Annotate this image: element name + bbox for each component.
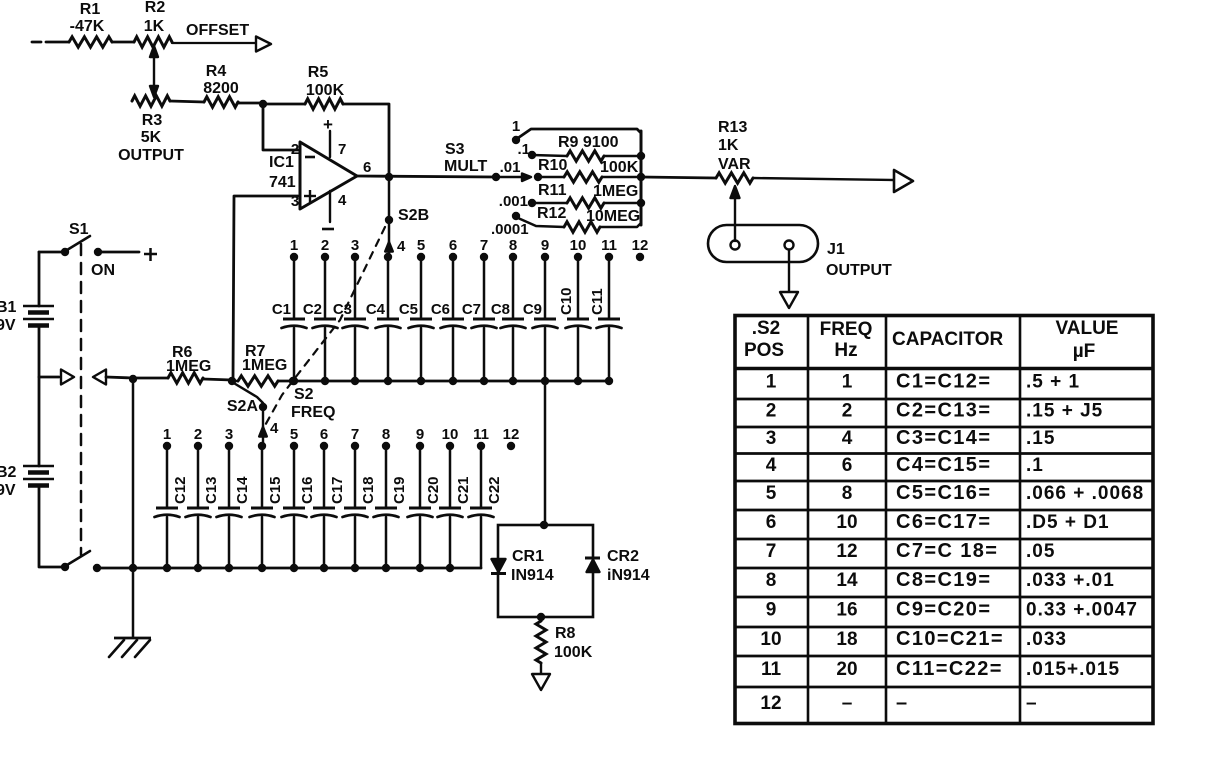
svg-text:.S2: .S2 [752, 318, 781, 339]
bottom bus junction dot 3 [225, 564, 233, 572]
minus sign (inverting input) [305, 156, 315, 159]
svg-text:R8: R8 [555, 625, 576, 642]
svg-text:.0001: .0001 [491, 221, 529, 238]
svg-text:C20: C20 [425, 476, 442, 504]
svg-text:C12: C12 [172, 476, 189, 504]
svg-text:.D5 + D1: .D5 + D1 [1026, 512, 1110, 533]
top bus junction dot 3 [351, 377, 359, 385]
svg-text:4: 4 [338, 192, 347, 209]
svg-text:6: 6 [766, 512, 777, 533]
S2 ganged switch dashed link line [263, 227, 385, 429]
S3 position .01 contact dot [534, 173, 542, 181]
bottom bus junction dot [129, 564, 137, 572]
capacitor C21 [438, 446, 473, 568]
wire top bus to diode clipper [544, 381, 547, 524]
svg-text:IN914: IN914 [511, 567, 554, 584]
svg-text:R9 9100: R9 9100 [558, 134, 619, 151]
svg-text:iN914: iN914 [607, 567, 650, 584]
wire R2 to OFFSET arrow [172, 42, 256, 44]
output node junction dot [385, 173, 393, 181]
svg-text:C17: C17 [329, 476, 346, 504]
S2 FREQ label [291, 386, 335, 421]
resistor R3 5K OUTPUT (pot) [118, 96, 184, 164]
clipper top junction dot [540, 521, 548, 529]
svg-text:741: 741 [269, 174, 296, 191]
wire R6 to node B [203, 379, 232, 380]
svg-text:C18: C18 [360, 476, 377, 504]
svg-text:C4=C15=: C4=C15= [896, 454, 991, 476]
svg-text:C14: C14 [234, 476, 251, 504]
wire R7 to cap bus [278, 380, 293, 383]
top bus junction dot 1 [290, 377, 298, 385]
svg-text:2: 2 [766, 401, 777, 422]
svg-text:OUTPUT: OUTPUT [118, 147, 184, 164]
R13 wiper arrow from J1 [731, 186, 740, 241]
top bus junction dot 11 [605, 377, 613, 385]
svg-text:5: 5 [290, 426, 298, 443]
svg-text:CR1: CR1 [512, 548, 544, 565]
capacitor C3 [333, 257, 368, 381]
svg-text:.15: .15 [1026, 428, 1055, 449]
wire to R1 [46, 41, 69, 44]
capacitor C11 [589, 257, 622, 381]
svg-text:1K: 1K [718, 137, 739, 154]
S3 position .1 contact dot [528, 151, 536, 159]
svg-text:R1: R1 [80, 1, 101, 18]
svg-text:FREQ: FREQ [820, 319, 873, 340]
svg-text:2: 2 [291, 141, 299, 158]
svg-text:2: 2 [842, 401, 853, 422]
S3 right bus wire [640, 131, 643, 225]
svg-text:C1=C12=: C1=C12= [896, 371, 991, 393]
J1 OUTPUT label [826, 241, 892, 279]
svg-text:3: 3 [225, 426, 233, 443]
svg-text:8: 8 [382, 426, 390, 443]
svg-text:11: 11 [601, 237, 617, 254]
capacitor C9 [523, 257, 558, 381]
R8 ground lead [540, 663, 542, 674]
svg-text:C9=C20=: C9=C20= [896, 599, 991, 621]
svg-text:10: 10 [760, 629, 781, 650]
svg-text:C6=C17=: C6=C17= [896, 511, 991, 533]
svg-text:CAPACITOR: CAPACITOR [892, 329, 1003, 350]
top bus junction dot 2 [321, 377, 329, 385]
svg-text:C7: C7 [462, 301, 481, 318]
resistor R1 -47K [69, 1, 112, 47]
svg-text:10: 10 [570, 237, 587, 254]
S2A wiper dot [259, 403, 267, 411]
node A junction (R4/R5/pin2) [259, 100, 267, 108]
svg-text:.15 + J5: .15 + J5 [1026, 401, 1103, 422]
svg-text:.015+.015: .015+.015 [1026, 659, 1120, 680]
wire R5 to output node [343, 104, 389, 174]
main output arrow [894, 170, 913, 192]
resistor R10 100K [538, 157, 641, 182]
svg-text:2: 2 [321, 237, 329, 254]
capacitor C5 [399, 257, 434, 381]
svg-text:1MEG: 1MEG [593, 183, 638, 200]
wire pin 6 to S3 common [357, 176, 496, 177]
S3 position 1 contact dot [512, 136, 520, 144]
svg-text:MULT: MULT [444, 158, 487, 175]
svg-text:B2: B2 [0, 464, 17, 481]
svg-text:12: 12 [760, 693, 781, 714]
resistor R13 1K VAR [716, 119, 753, 183]
svg-text:6: 6 [842, 455, 853, 476]
S3 MULT label [444, 141, 487, 175]
wire position 1 over to bus (direct) [518, 129, 641, 138]
svg-text:1MEG: 1MEG [242, 357, 287, 374]
svg-text:C7=C 18=: C7=C 18= [896, 540, 998, 562]
svg-text:20: 20 [836, 659, 857, 680]
svg-text:7: 7 [766, 541, 777, 562]
capacitor C2 [303, 257, 338, 381]
wire connector to ground node [106, 377, 133, 378]
svg-text:1: 1 [290, 237, 298, 254]
bottom bus junction dot 1 [163, 564, 171, 572]
svg-text:C13: C13 [203, 476, 220, 504]
top bus junction dot 10 [574, 377, 582, 385]
resistor R2 1K (pot) [134, 0, 172, 47]
top bus junction dot 8 [509, 377, 517, 385]
svg-text:.5 + 1: .5 + 1 [1026, 372, 1080, 393]
svg-text:POS: POS [744, 340, 784, 361]
svg-text:7: 7 [351, 426, 359, 443]
svg-text:C10=C21=: C10=C21= [896, 628, 1004, 650]
svg-text:100K: 100K [554, 644, 593, 661]
svg-text:Hz: Hz [834, 340, 857, 361]
svg-text:C3: C3 [333, 301, 352, 318]
svg-text:C10: C10 [558, 287, 575, 315]
svg-text:S3: S3 [445, 141, 465, 158]
S2A wiper wire from node B [232, 382, 263, 403]
svg-text:+: + [323, 115, 333, 134]
J1 ground arrow (open) [780, 292, 798, 308]
switch S1 (top pole) [39, 236, 139, 256]
svg-text:8: 8 [509, 237, 517, 254]
J1 left pin [731, 241, 740, 250]
battery tap stub to connector arrow [39, 376, 59, 379]
bottom bus junction dot 6 [320, 564, 328, 572]
top capacitor bus wire [293, 380, 609, 383]
svg-text:C8: C8 [491, 301, 510, 318]
diode CR1 IN914 [491, 548, 554, 584]
capacitor C18 [343, 446, 378, 568]
svg-text:6: 6 [320, 426, 328, 443]
svg-text:.033: .033 [1026, 629, 1067, 650]
svg-text:9V: 9V [0, 482, 16, 499]
capacitor C17 [312, 446, 347, 568]
diode CR2 iN914 [585, 548, 650, 584]
svg-text:C21: C21 [455, 476, 472, 504]
bus dot R10 row / output node [637, 173, 645, 181]
svg-text:C9: C9 [523, 301, 542, 318]
svg-text:VALUE: VALUE [1056, 318, 1119, 339]
svg-text:16: 16 [836, 600, 857, 621]
svg-text:CR2: CR2 [607, 548, 639, 565]
svg-text:C2=C13=: C2=C13= [896, 400, 991, 422]
svg-text:R5: R5 [308, 64, 329, 81]
capacitor C6 [431, 257, 466, 381]
svg-text:R2: R2 [145, 0, 166, 16]
svg-text:R10: R10 [538, 157, 567, 174]
svg-text:4: 4 [766, 455, 777, 476]
svg-text:R11: R11 [538, 182, 567, 199]
S3 common junction dot [492, 173, 500, 181]
svg-text:0.33 +.0047: 0.33 +.0047 [1026, 600, 1138, 621]
svg-text:R3: R3 [142, 112, 163, 129]
cap bus left junction dot [289, 377, 297, 385]
svg-text:1: 1 [842, 372, 853, 393]
svg-text:5: 5 [766, 483, 777, 504]
svg-text:4: 4 [842, 428, 853, 449]
pin 4 supply lead [322, 191, 347, 229]
svg-text:9: 9 [541, 237, 549, 254]
svg-text:C6: C6 [431, 301, 450, 318]
svg-text:C3=C14=: C3=C14= [896, 427, 991, 449]
ground symbol [109, 638, 151, 657]
svg-text:5K: 5K [141, 129, 162, 146]
S2A wiper arrow to position 4 [259, 407, 267, 444]
svg-text:7: 7 [480, 237, 488, 254]
capacitor C22 [469, 446, 504, 568]
vertical ground wire [132, 379, 135, 637]
svg-text:5: 5 [417, 237, 425, 254]
wire node A to R5 [263, 103, 305, 106]
svg-text:–: – [896, 692, 909, 714]
top bus junction dot 4 [384, 377, 392, 385]
bottom bus junction dot 7 [351, 564, 359, 572]
S3 position .0001 contact dot [512, 212, 520, 220]
svg-text:µF: µF [1073, 341, 1096, 362]
wire R4 to node A [238, 102, 263, 105]
ground bus node dot [129, 375, 137, 383]
wire R3-R4 [170, 101, 204, 102]
svg-text:.001: .001 [499, 193, 528, 210]
capacitor C12 [155, 446, 190, 568]
svg-text:S2: S2 [294, 386, 314, 403]
svg-text:C4: C4 [366, 301, 386, 318]
svg-text:9: 9 [416, 426, 424, 443]
capacitor C8 [491, 257, 526, 381]
svg-text:.01: .01 [500, 159, 521, 176]
plus sign (non-inverting input) [304, 190, 316, 202]
svg-text:10: 10 [442, 426, 459, 443]
resistor R7 1MEG [232, 343, 287, 386]
bottom capacitor bus wire [133, 567, 481, 570]
R2 wiper arrow down to R3 [150, 46, 158, 97]
svg-text:C15: C15 [267, 476, 284, 504]
bottom bus junction dot 9 [416, 564, 424, 572]
top bus junction dot 7 [480, 377, 488, 385]
svg-text:R12: R12 [537, 205, 566, 222]
battery B2 9V [0, 464, 54, 499]
svg-text:C11: C11 [589, 288, 606, 315]
wire S1 to B1 [38, 252, 41, 306]
resistor R11 1MEG [532, 182, 641, 208]
S2B wiper wire down to position 4 [385, 177, 393, 255]
J1 right pin [785, 241, 794, 250]
svg-text:.05: .05 [1026, 541, 1055, 562]
wire pin 3 to R6/R7 node [233, 196, 298, 380]
top bus junction dot 5 [417, 377, 425, 385]
svg-text:11: 11 [473, 426, 489, 443]
svg-text:VAR: VAR [718, 156, 751, 173]
left-pointing connector arrow (circuit side) [93, 370, 106, 385]
svg-text:OUTPUT: OUTPUT [826, 262, 892, 279]
svg-text:.033 +.01: .033 +.01 [1026, 570, 1115, 591]
capacitor C7 [462, 257, 497, 381]
wire R1-R2 [112, 41, 134, 44]
svg-text:6: 6 [363, 159, 371, 176]
svg-text:B1: B1 [0, 299, 17, 316]
capacitor C19 [374, 446, 409, 568]
wire node A down to pin 2 [263, 104, 298, 150]
svg-text:C11=C22=: C11=C22= [896, 658, 1003, 680]
wire B2 to bottom switch [39, 486, 61, 567]
plus sign at S1 [144, 248, 157, 261]
bottom bus junction dot 5 [290, 564, 298, 572]
S3 wiper arrow [496, 174, 531, 182]
op-amp U1 IC1 741 triangle [269, 142, 357, 209]
svg-text:12: 12 [503, 426, 520, 443]
capacitor C10 [558, 257, 591, 381]
svg-text:10: 10 [836, 512, 857, 533]
wire B1 to B2 [38, 326, 41, 466]
svg-text:14: 14 [836, 570, 858, 591]
svg-text:3: 3 [766, 428, 777, 449]
bus dot R9 row [637, 152, 645, 160]
svg-text:8200: 8200 [203, 80, 239, 97]
battery B1 9V [0, 299, 54, 334]
capacitor C4 [366, 257, 401, 381]
svg-text:C8=C19=: C8=C19= [896, 569, 991, 591]
wire bus to R13 [641, 177, 716, 178]
svg-text:10MEG: 10MEG [586, 208, 640, 225]
svg-text:9V: 9V [0, 317, 16, 334]
svg-text:C16: C16 [299, 476, 316, 504]
svg-text:C5: C5 [399, 301, 418, 318]
capacitor C1 [272, 257, 307, 381]
bus dot R11 row [637, 199, 645, 207]
svg-text:J1: J1 [827, 241, 845, 258]
offset output arrow [256, 37, 271, 52]
capacitor C15 [250, 446, 285, 568]
bottom bus junction dot 8 [382, 564, 390, 572]
table: S2 POS / FREQ / CAPACITOR / VALUE [735, 316, 1153, 724]
pin 7 supply lead [323, 115, 346, 158]
svg-text:–: – [842, 693, 853, 714]
resistor R9 9100 [532, 134, 641, 161]
S2B wiper dot [385, 216, 393, 224]
svg-text:8: 8 [766, 570, 777, 591]
svg-text:ON: ON [91, 262, 115, 279]
svg-text:1: 1 [163, 426, 171, 443]
svg-text:R13: R13 [718, 119, 747, 136]
svg-text:C22: C22 [486, 476, 503, 504]
right-pointing connector arrow (battery tap) [61, 370, 74, 385]
svg-text:S2A: S2A [227, 398, 259, 415]
svg-text:2: 2 [194, 426, 202, 443]
wire node to R6 [133, 377, 168, 380]
svg-text:6: 6 [449, 237, 457, 254]
resistor R6 1MEG [166, 344, 211, 383]
S1 second pole dashed gang line [80, 244, 83, 555]
svg-text:.066 + .0068: .066 + .0068 [1026, 483, 1144, 504]
bottom bus junction dot 4 [258, 564, 266, 572]
wire stub (off-page dash, top-left) [32, 41, 41, 44]
wire R13 to output arrow [753, 178, 894, 180]
capacitor C16 [282, 446, 317, 568]
switch S1 (bottom pole) [61, 551, 130, 572]
bottom bus junction dot 10 [446, 564, 454, 572]
R8 ground arrow (open) [532, 674, 550, 690]
connector J1 body (stadium outline) [708, 225, 818, 262]
svg-text:R4: R4 [206, 63, 227, 80]
svg-text:9: 9 [766, 600, 777, 621]
svg-text:8: 8 [842, 483, 853, 504]
capacitor C20 [408, 446, 443, 568]
bottom bus junction dot 2 [194, 564, 202, 572]
svg-text:4: 4 [397, 238, 406, 255]
svg-text:18: 18 [836, 629, 857, 650]
svg-text:C19: C19 [391, 476, 408, 504]
resistor R4 8200 [203, 63, 239, 107]
capacitor C13 [186, 446, 221, 568]
S3 position .001 contact dot [528, 199, 536, 207]
svg-text:12: 12 [836, 541, 857, 562]
svg-text:4: 4 [270, 420, 279, 437]
svg-text:100K: 100K [306, 82, 345, 99]
svg-text:-47K: -47K [70, 18, 105, 35]
svg-text:1K: 1K [144, 18, 165, 35]
diode clipper box wiring [498, 525, 593, 617]
svg-text:OFFSET: OFFSET [186, 22, 249, 39]
top bus junction dot 9 [541, 377, 549, 385]
svg-text:3: 3 [351, 237, 359, 254]
svg-text:1MEG: 1MEG [166, 358, 211, 375]
resistor R8 100K [536, 621, 593, 663]
svg-text:S1: S1 [69, 221, 89, 238]
svg-text:1: 1 [512, 118, 520, 135]
resistor R12 10MEG [518, 205, 641, 232]
resistor R5 100K (feedback) [305, 64, 345, 109]
node B junction dot (pin3/R6/R7/S2A) [228, 377, 236, 385]
svg-text:1: 1 [766, 372, 777, 393]
svg-text:–: – [1026, 693, 1038, 714]
svg-text:S2B: S2B [398, 207, 429, 224]
svg-text:.1: .1 [1026, 455, 1044, 476]
svg-text:7: 7 [338, 141, 346, 158]
svg-text:11: 11 [761, 659, 782, 680]
svg-text:100K: 100K [600, 159, 639, 176]
clipper bottom junction dot [537, 613, 545, 621]
svg-text:C1: C1 [272, 301, 291, 318]
svg-text:12: 12 [632, 237, 649, 254]
svg-text:FREQ: FREQ [291, 404, 335, 421]
svg-text:C5=C16=: C5=C16= [896, 482, 991, 504]
capacitor C14 [217, 446, 252, 568]
J1 right pin ground lead [788, 250, 790, 292]
top bus junction dot 6 [449, 377, 457, 385]
svg-text:C2: C2 [303, 301, 322, 318]
